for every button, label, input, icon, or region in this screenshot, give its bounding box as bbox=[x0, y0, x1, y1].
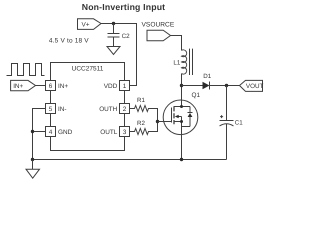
svg-text:4: 4 bbox=[49, 129, 53, 136]
wire to D1 anode bbox=[182, 85, 203, 87]
svg-text:R1: R1 bbox=[137, 97, 145, 104]
IC U1 body UCC27511 bbox=[51, 63, 125, 151]
tag IN+ bbox=[11, 80, 36, 90]
node L1/D1/drain bbox=[180, 84, 183, 87]
square-wave input waveform bbox=[7, 64, 45, 76]
svg-text:Non-Inverting Input: Non-Inverting Input bbox=[82, 2, 166, 12]
svg-text:6: 6 bbox=[49, 83, 53, 90]
svg-text:UCC27511: UCC27511 bbox=[72, 66, 104, 73]
svg-text:OUTL: OUTL bbox=[100, 129, 117, 136]
node V+/C2 junction bbox=[112, 22, 115, 25]
wire VSOURCE to L1 bbox=[171, 36, 182, 51]
diode D1 bbox=[203, 82, 210, 90]
ground (main) bbox=[32, 160, 34, 170]
wire D1 to VOUT bbox=[210, 85, 240, 87]
node gate junction bbox=[156, 120, 159, 123]
pin 1 VDD bbox=[120, 81, 130, 91]
wire IN+ tag to pin 6 bbox=[36, 85, 46, 87]
svg-text:GND: GND bbox=[58, 129, 73, 136]
wire L1 to drain bbox=[181, 74, 183, 107]
capacitor C1 (polarized) bbox=[220, 120, 234, 122]
pin 6 IN+ bbox=[46, 81, 56, 91]
resistor R2 bbox=[130, 122, 158, 135]
svg-text:Q1: Q1 bbox=[192, 92, 201, 99]
svg-text:2: 2 bbox=[123, 106, 127, 113]
pin 5 IN- bbox=[46, 104, 56, 114]
svg-text:V+: V+ bbox=[82, 21, 90, 28]
svg-text:VOUT: VOUT bbox=[246, 83, 264, 90]
node source/bus bbox=[180, 158, 183, 161]
wire IN- to ground bus bbox=[33, 109, 46, 160]
svg-text:1: 1 bbox=[123, 83, 127, 90]
wire GND pin stub bbox=[33, 131, 46, 133]
tag V+ bbox=[78, 19, 102, 30]
node IN-/GND junction bbox=[31, 130, 34, 133]
svg-text:OUTH: OUTH bbox=[99, 106, 117, 113]
wire C2 top stub bbox=[113, 24, 115, 34]
node bus left bbox=[31, 158, 34, 161]
wire C1 bottom bbox=[226, 124, 228, 160]
wire gate bbox=[158, 121, 172, 123]
capacitor C2 bbox=[108, 34, 120, 38]
svg-text:4.5 V to 18 V: 4.5 V to 18 V bbox=[49, 38, 89, 45]
svg-text:IN+: IN+ bbox=[58, 83, 68, 90]
svg-text:VDD: VDD bbox=[104, 83, 118, 90]
pin 3 OUTL bbox=[120, 127, 130, 137]
svg-text:C2: C2 bbox=[122, 33, 131, 40]
pin 4 GND bbox=[46, 127, 56, 137]
svg-text:VSOURCE: VSOURCE bbox=[142, 21, 175, 28]
ground (under C2) bbox=[107, 47, 120, 55]
tag VOUT bbox=[240, 80, 263, 91]
resistor R1 bbox=[130, 106, 158, 122]
svg-text:3: 3 bbox=[123, 129, 127, 136]
wire C2 to ground bbox=[113, 37, 115, 47]
svg-text:IN+: IN+ bbox=[13, 83, 23, 90]
wire ground bus bbox=[33, 159, 227, 161]
svg-text:R2: R2 bbox=[137, 120, 145, 127]
pin 2 OUTH bbox=[120, 104, 130, 114]
svg-text:L1: L1 bbox=[173, 60, 180, 67]
node D1/C1/VOUT bbox=[225, 84, 228, 87]
svg-text:IN-: IN- bbox=[58, 106, 67, 113]
svg-text:C1: C1 bbox=[235, 120, 243, 127]
svg-text:D1: D1 bbox=[203, 73, 211, 80]
inductor L1 bbox=[182, 50, 187, 74]
transistor Q1 (N-MOSFET) bbox=[163, 100, 198, 160]
svg-text:5: 5 bbox=[49, 106, 53, 113]
wire C1 top bbox=[226, 86, 228, 121]
wire V+ to VDD pin bbox=[101, 24, 137, 86]
